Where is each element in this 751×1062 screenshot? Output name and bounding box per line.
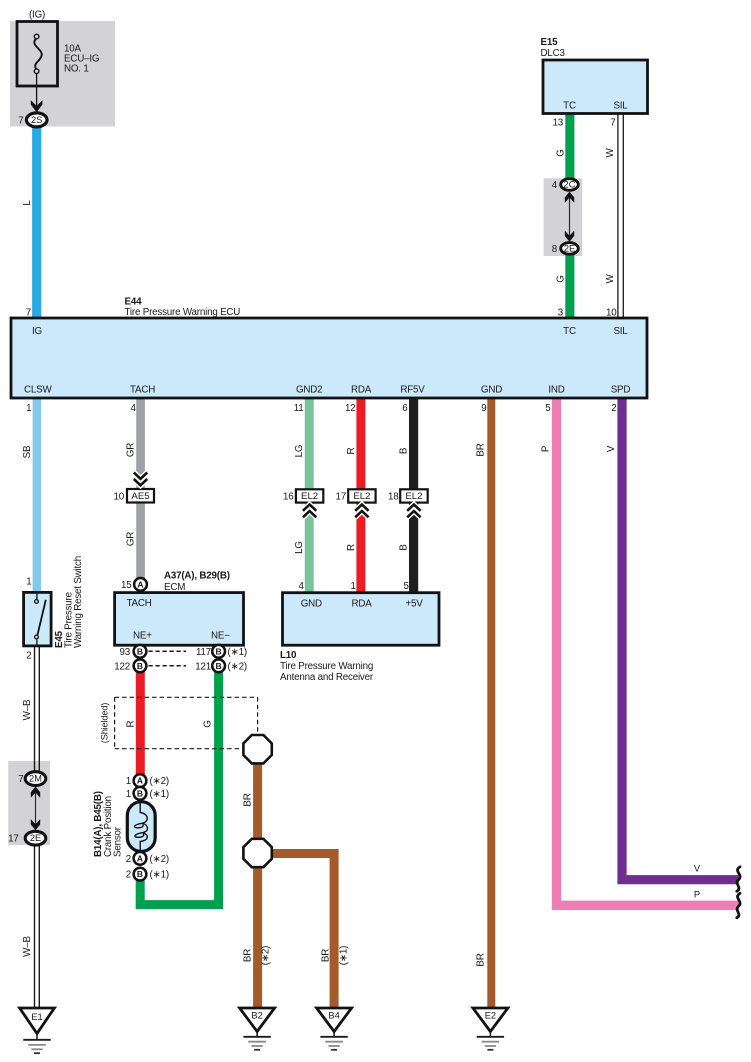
svg-text:GR: GR xyxy=(125,443,136,457)
svg-text:TACH: TACH xyxy=(127,598,152,609)
svg-text:B: B xyxy=(398,447,409,454)
svg-text:1: 1 xyxy=(26,577,31,588)
svg-text:GND2: GND2 xyxy=(296,385,322,396)
svg-text:EL2: EL2 xyxy=(301,491,318,502)
svg-text:CLSW: CLSW xyxy=(24,385,52,396)
svg-text:W–B: W–B xyxy=(22,699,33,720)
svg-text:SIL: SIL xyxy=(613,101,628,112)
svg-text:17: 17 xyxy=(336,492,347,503)
svg-text:2S: 2S xyxy=(31,115,42,125)
svg-text:16: 16 xyxy=(283,492,294,503)
svg-text:B: B xyxy=(216,646,222,656)
svg-text:B: B xyxy=(137,788,143,798)
svg-text:A: A xyxy=(137,853,143,863)
svg-text:G: G xyxy=(556,149,567,156)
svg-text:AE5: AE5 xyxy=(131,491,149,502)
svg-text:A37(A), B29(B): A37(A), B29(B) xyxy=(164,571,230,582)
svg-text:ECM: ECM xyxy=(164,582,185,593)
svg-text:E44: E44 xyxy=(125,297,143,308)
svg-text:(∗1): (∗1) xyxy=(228,647,247,658)
svg-text:(∗1): (∗1) xyxy=(150,789,169,800)
svg-text:EL2: EL2 xyxy=(353,491,370,502)
svg-text:P: P xyxy=(694,890,700,900)
svg-text:B4: B4 xyxy=(328,1011,339,1021)
svg-text:R: R xyxy=(346,544,357,551)
svg-text:4: 4 xyxy=(298,581,304,592)
svg-text:P: P xyxy=(541,445,552,452)
svg-text:(IG): (IG) xyxy=(29,10,45,21)
svg-text:Tire Pressure Warning: Tire Pressure Warning xyxy=(280,661,373,672)
svg-text:TC: TC xyxy=(563,101,576,112)
svg-text:13: 13 xyxy=(553,118,564,129)
svg-text:(Shielded): (Shielded) xyxy=(100,703,110,743)
svg-text:7: 7 xyxy=(18,774,23,785)
svg-text:NE−: NE− xyxy=(211,631,230,642)
svg-text:B: B xyxy=(137,661,143,671)
svg-text:A: A xyxy=(137,579,143,589)
svg-text:RDA: RDA xyxy=(352,599,373,610)
svg-text:4: 4 xyxy=(552,180,558,191)
svg-text:B2: B2 xyxy=(251,1011,262,1021)
svg-text:RDA: RDA xyxy=(351,385,372,396)
svg-text:(∗2): (∗2) xyxy=(261,946,272,965)
svg-text:122: 122 xyxy=(114,661,130,672)
svg-text:5: 5 xyxy=(545,403,551,414)
svg-text:E2: E2 xyxy=(485,1011,496,1021)
svg-text:GND: GND xyxy=(301,599,322,610)
svg-text:V: V xyxy=(606,445,617,452)
svg-text:W: W xyxy=(605,274,616,284)
svg-text:E1: E1 xyxy=(31,1012,42,1022)
svg-text:E15: E15 xyxy=(541,37,559,48)
svg-text:1: 1 xyxy=(350,581,355,592)
svg-text:(∗2): (∗2) xyxy=(150,776,169,787)
svg-text:5: 5 xyxy=(403,581,409,592)
svg-text:W: W xyxy=(605,148,616,158)
svg-text:NO. 1: NO. 1 xyxy=(64,64,89,75)
svg-text:7: 7 xyxy=(26,308,31,319)
svg-text:GND: GND xyxy=(481,385,502,396)
svg-text:GR: GR xyxy=(125,532,136,546)
svg-text:2E: 2E xyxy=(30,833,41,843)
svg-text:12: 12 xyxy=(345,403,356,414)
svg-text:SIL: SIL xyxy=(613,326,628,337)
svg-text:B: B xyxy=(398,544,409,551)
svg-text:RF5V: RF5V xyxy=(400,385,425,396)
svg-text:BR: BR xyxy=(243,793,254,806)
svg-text:DLC3: DLC3 xyxy=(541,48,566,59)
svg-text:+5V: +5V xyxy=(406,599,424,610)
svg-text:8: 8 xyxy=(552,244,558,255)
svg-text:10: 10 xyxy=(114,492,125,503)
svg-text:6: 6 xyxy=(402,403,408,414)
svg-text:B: B xyxy=(137,646,143,656)
svg-text:G: G xyxy=(556,275,567,282)
svg-text:7: 7 xyxy=(610,118,615,129)
svg-text:LG: LG xyxy=(294,541,305,554)
svg-text:4: 4 xyxy=(131,403,137,414)
svg-text:(∗2): (∗2) xyxy=(228,661,247,672)
svg-text:9: 9 xyxy=(481,403,486,414)
svg-text:V: V xyxy=(694,864,701,874)
svg-text:1: 1 xyxy=(126,776,131,787)
svg-text:3: 3 xyxy=(558,308,564,319)
svg-text:R: R xyxy=(346,447,357,454)
svg-text:Sensor: Sensor xyxy=(113,826,124,857)
svg-text:IND: IND xyxy=(548,385,564,396)
svg-text:A: A xyxy=(137,776,143,786)
svg-text:BR: BR xyxy=(321,949,332,962)
svg-text:L10: L10 xyxy=(280,650,297,661)
svg-text:G: G xyxy=(202,720,213,727)
svg-text:2E: 2E xyxy=(564,243,575,253)
svg-text:2C: 2C xyxy=(564,180,576,190)
svg-text:18: 18 xyxy=(388,492,399,503)
svg-text:TACH: TACH xyxy=(130,385,155,396)
svg-text:BR: BR xyxy=(243,949,254,962)
svg-text:SPD: SPD xyxy=(611,385,631,396)
svg-text:IG: IG xyxy=(32,326,42,337)
svg-text:(∗1): (∗1) xyxy=(338,946,349,965)
svg-text:B: B xyxy=(137,869,143,879)
svg-text:Antenna and Receiver: Antenna and Receiver xyxy=(280,672,374,683)
svg-text:11: 11 xyxy=(294,403,304,414)
svg-text:(∗1): (∗1) xyxy=(150,870,169,881)
svg-text:2: 2 xyxy=(611,403,616,414)
svg-text:1: 1 xyxy=(126,789,131,800)
svg-text:7: 7 xyxy=(18,116,23,127)
svg-text:B: B xyxy=(216,661,222,671)
svg-text:BR: BR xyxy=(476,443,487,456)
svg-text:W–B: W–B xyxy=(22,936,33,957)
svg-text:93: 93 xyxy=(120,647,131,658)
svg-text:2M: 2M xyxy=(29,774,42,784)
svg-text:EL2: EL2 xyxy=(405,491,422,502)
svg-text:L: L xyxy=(22,200,33,206)
svg-text:LG: LG xyxy=(294,445,305,458)
svg-text:17: 17 xyxy=(8,834,19,845)
svg-text:10: 10 xyxy=(606,308,617,319)
svg-text:2: 2 xyxy=(126,854,131,865)
svg-text:121: 121 xyxy=(195,661,211,672)
svg-text:Warning Reset Switch: Warning Reset Switch xyxy=(73,556,84,648)
svg-text:R: R xyxy=(125,720,136,727)
svg-text:NE+: NE+ xyxy=(133,631,152,642)
svg-text:15: 15 xyxy=(121,580,132,591)
svg-text:(∗2): (∗2) xyxy=(150,854,169,865)
svg-text:2: 2 xyxy=(126,870,131,881)
svg-text:TC: TC xyxy=(563,326,576,337)
svg-text:SB: SB xyxy=(22,445,33,458)
svg-text:1: 1 xyxy=(26,403,31,414)
svg-text:2: 2 xyxy=(26,651,31,662)
svg-text:Tire Pressure Warning ECU: Tire Pressure Warning ECU xyxy=(125,307,241,318)
svg-text:117: 117 xyxy=(196,647,211,658)
svg-text:BR: BR xyxy=(476,953,487,966)
